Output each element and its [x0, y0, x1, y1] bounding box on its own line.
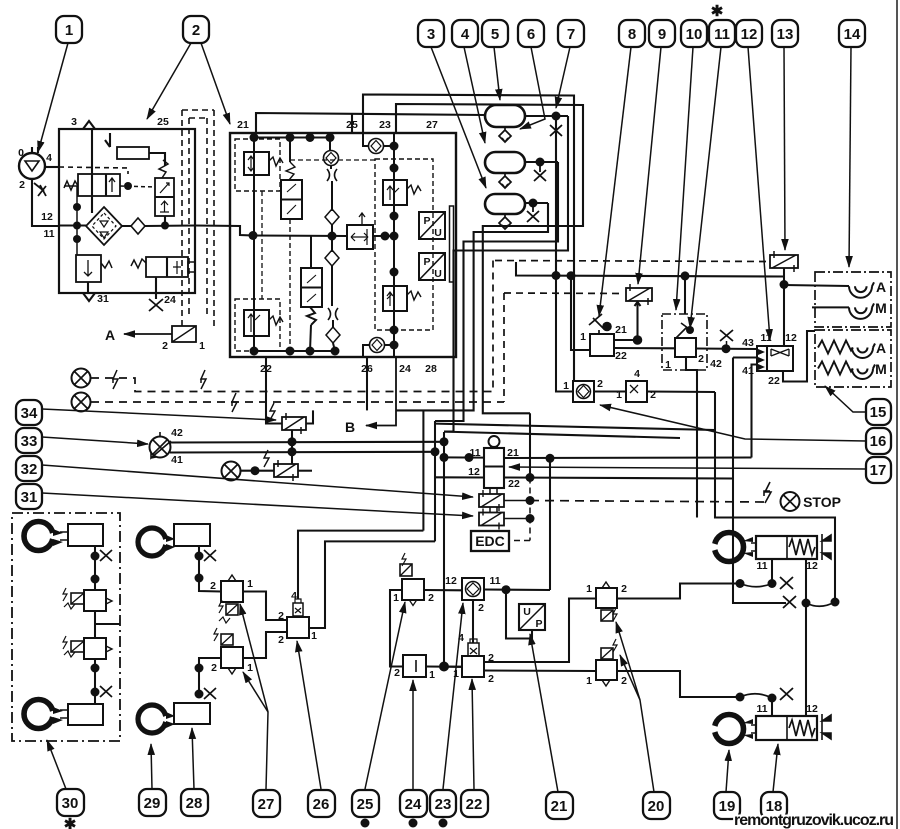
spring valve 23 — [407, 185, 421, 194]
compressor 1 — [19, 153, 45, 179]
brake cylinder 28 — [174, 703, 210, 724]
wire central valve right — [373, 235, 394, 237]
label B — [345, 419, 355, 435]
junction dots rail — [390, 164, 399, 173]
spring valve 21 — [269, 157, 283, 166]
svg-text:12: 12 — [41, 211, 53, 223]
wire to horn A — [784, 285, 849, 286]
leader callout 13 to valve 13 — [784, 47, 785, 250]
warning lamp 31 — [222, 462, 241, 481]
wire accessory rail to check valve 16 — [556, 276, 573, 392]
trunk riser 28a — [422, 410, 424, 530]
svg-text:B: B — [345, 419, 355, 435]
membrane bar — [450, 206, 454, 282]
compressor labels — [18, 147, 55, 240]
ABS valve 30 lower — [84, 638, 106, 659]
svg-text:11: 11 — [756, 560, 767, 572]
callout 21 — [546, 792, 573, 819]
test X chamber bottom — [780, 688, 793, 700]
wire port 27 supply — [396, 104, 583, 413]
wire valve lower down — [94, 659, 96, 704]
wire port 24 check — [363, 345, 394, 357]
svg-text:27: 27 — [258, 796, 275, 813]
svg-text:U: U — [434, 268, 442, 280]
governor valve V1 — [78, 174, 120, 196]
wire tank 2 loop down — [435, 162, 558, 421]
lightning bolt 1 — [113, 370, 118, 389]
svg-text:11: 11 — [714, 26, 730, 43]
label 31 — [97, 293, 109, 305]
svg-text:22: 22 — [768, 375, 780, 387]
junction dot tank 2 — [536, 158, 545, 167]
wire regen lower bottom — [310, 325, 311, 351]
callout 11 — [709, 20, 735, 47]
solenoid 25 — [400, 564, 412, 576]
svg-text:24: 24 — [405, 796, 422, 813]
svg-text:U: U — [523, 606, 531, 618]
wire compressor outlet right — [45, 166, 59, 168]
junction dots lamp lines — [440, 437, 449, 446]
dashed channel cap — [182, 110, 214, 118]
svg-text:1: 1 — [247, 578, 253, 590]
wire valve 34 output — [306, 410, 313, 423]
leader callout 2 to governor box — [147, 43, 191, 119]
protection valve box — [230, 133, 456, 357]
trunk wire 42 right — [435, 424, 715, 430]
callout 3 — [418, 20, 444, 47]
wire 26 pilot up — [298, 531, 423, 599]
callout 14 — [839, 20, 865, 47]
solenoid 30 upper — [71, 593, 84, 604]
port labels bottom — [260, 363, 437, 375]
svg-text:28: 28 — [186, 795, 203, 812]
label 3 — [71, 116, 169, 128]
leader callout 14 to horn box — [849, 47, 851, 267]
wire valve 25 left loop — [390, 590, 403, 667]
svg-text:1: 1 — [665, 359, 671, 371]
regeneration valve upper — [281, 180, 302, 219]
pressure regulator resistor — [117, 147, 149, 159]
callout 25 — [352, 790, 379, 817]
retarder valve upper 32 — [479, 494, 504, 507]
governor box 2 — [59, 129, 195, 293]
bottom bus wire — [254, 350, 335, 352]
junction dot 28b — [195, 690, 204, 699]
wire to A arrow — [124, 333, 172, 335]
lightning bolt 3 — [232, 393, 237, 412]
leader callout 6 to tank 1 drain valve — [520, 47, 545, 129]
wire lamp 31 to valve 32 — [241, 470, 274, 472]
wire tank 3 loop down — [396, 203, 548, 410]
junction dot 29a — [195, 552, 204, 561]
leader callout 1 to compressor — [38, 43, 68, 152]
wire diamond to mid bus — [331, 225, 333, 252]
callout 13 — [772, 20, 798, 47]
callout 5 — [482, 20, 508, 47]
svg-text:2: 2 — [19, 179, 25, 191]
leader callout 9 to valve 9 — [638, 47, 661, 284]
junction dot mid bus — [328, 232, 337, 241]
svg-text:7: 7 — [567, 26, 575, 43]
dashed wire to valve 13 — [495, 261, 768, 262]
left rail wire — [253, 138, 255, 352]
wire hand valve to trailer valve — [696, 347, 757, 350]
callout 7 — [558, 20, 584, 47]
contact tick — [105, 133, 110, 147]
callout 16 — [866, 428, 891, 454]
spring valve 22 — [269, 316, 283, 325]
dot below callout 24 — [409, 819, 418, 828]
junction dot valve 13 — [780, 280, 789, 289]
svg-text:24: 24 — [399, 363, 411, 375]
safety valve — [76, 255, 101, 282]
svg-text:6: 6 — [527, 26, 535, 43]
lightning valve 32 — [264, 450, 269, 467]
P/U sensor lower — [419, 253, 445, 280]
svg-text:22: 22 — [508, 478, 520, 490]
leader callout 3 to tank 3 — [431, 47, 486, 188]
air dryer filter — [86, 207, 122, 245]
svg-text:✱: ✱ — [64, 816, 77, 829]
brake cylinder 29 — [174, 524, 210, 546]
svg-text:2: 2 — [162, 340, 168, 352]
wire V1 top to box top — [91, 129, 93, 174]
callout 29 — [139, 789, 166, 816]
wire lamp 33 line 42 — [170, 441, 444, 444]
leader callout 27 to ABS valve upper — [240, 604, 268, 789]
wire chamber 12 top — [805, 558, 807, 603]
leader callout 4 to tank 2 — [464, 47, 485, 143]
ABS valve 27 upper — [221, 581, 243, 602]
wire valve 27 upper to 26 — [243, 592, 287, 621]
svg-text:31: 31 — [21, 489, 38, 506]
wire valve 25 to 23 — [424, 589, 462, 591]
svg-text:12: 12 — [741, 26, 758, 43]
hand valve 10 — [675, 338, 696, 357]
svg-text:14: 14 — [844, 26, 861, 43]
air tank 1 — [485, 105, 525, 127]
svg-text:32: 32 — [21, 461, 38, 478]
vent triangle on box top — [83, 121, 95, 129]
trunk riser 32 — [434, 421, 436, 541]
wire valve 8 supply — [571, 276, 590, 350]
svg-text:4: 4 — [458, 632, 464, 644]
wire 22 lower out — [484, 669, 596, 672]
watermark remontgruzovik.ucoz.ru — [734, 812, 894, 829]
svg-text:42: 42 — [710, 358, 722, 370]
leader callout 33 to warning lamp 33 — [42, 437, 148, 444]
test point X tank 2 — [534, 162, 546, 181]
svg-text:M: M — [875, 300, 887, 316]
lightning valve 34 — [270, 403, 275, 420]
wire valve 13 down — [783, 268, 785, 346]
P/U sensor upper — [419, 212, 445, 239]
overflow valve 21 — [244, 152, 269, 175]
check diamond bottom — [326, 327, 340, 343]
svg-text:EDC: EDC — [475, 533, 505, 549]
horn box 14 — [815, 272, 891, 327]
svg-text:2: 2 — [698, 353, 704, 365]
check diamond mid upper — [325, 209, 339, 225]
leader callout 20 to valve 20 lower — [620, 655, 640, 700]
svg-text:P: P — [423, 256, 430, 268]
callout 15 — [866, 399, 891, 425]
connector 26 — [293, 603, 303, 616]
junction dot 23 — [502, 585, 511, 594]
dashed box circuits 23-24 — [375, 159, 433, 330]
leader callout 20 to valve 20 upper — [616, 622, 654, 792]
wire valve 23 out — [484, 588, 550, 591]
junction dot port 21 — [546, 454, 555, 463]
throttle lower — [328, 308, 338, 320]
svg-text:M: M — [875, 361, 887, 377]
solenoid 20 upper — [601, 610, 613, 621]
antifreeze pump valve A — [172, 326, 196, 342]
central solenoid valve — [347, 225, 373, 249]
leader callout 19 to wheel 19 — [726, 750, 729, 792]
svg-text:1: 1 — [199, 340, 205, 352]
pressure limiter 22 — [462, 656, 484, 677]
wire valve 24 out — [426, 665, 462, 667]
wire inflation valve down — [155, 277, 157, 299]
air tank 2 — [485, 152, 525, 173]
wire hand valve park line — [686, 357, 697, 518]
svg-text:28: 28 — [425, 363, 437, 375]
wire valve 8 port 21 — [614, 339, 637, 341]
brake valve head — [489, 436, 500, 447]
leader callout 28 to brake cylinder 28 — [192, 728, 194, 789]
callout 20 — [643, 792, 670, 819]
hose arc spring top — [806, 602, 835, 606]
wire port 22 to valve 34 — [266, 357, 282, 424]
STOP dashed wire — [530, 501, 764, 503]
wire cylinder 29 down — [199, 546, 221, 592]
svg-text:2: 2 — [211, 662, 217, 674]
wire trailer valve port 41 — [752, 365, 758, 458]
svg-text:43: 43 — [742, 337, 754, 349]
retarder valve lower 31 — [479, 513, 504, 526]
pressure valve 24 — [403, 655, 426, 677]
svg-text:2: 2 — [210, 580, 216, 592]
test X 28 — [204, 688, 216, 699]
test X 29 — [204, 550, 216, 561]
callout 6 — [518, 20, 544, 47]
wire accessory rail to hand valve — [684, 276, 686, 314]
wire port 21 out — [504, 392, 835, 602]
connector 22 — [468, 643, 479, 656]
wire switch 16b output — [647, 390, 715, 393]
svg-text:10: 10 — [686, 26, 703, 43]
resistor horn box 15 — [815, 330, 891, 387]
wire port 23 check — [363, 133, 394, 146]
spring below regen lower — [307, 307, 316, 325]
label STOP — [803, 494, 841, 510]
solenoid 27 upper — [226, 604, 238, 615]
check valve diamond — [131, 218, 145, 234]
svg-text:2: 2 — [278, 634, 284, 646]
junction dots retarder — [526, 496, 535, 505]
wire valve 27 lower to 26 — [243, 632, 287, 658]
wheel sensor 29 — [138, 528, 166, 556]
callout 1 — [56, 16, 82, 43]
wire check 16 to switch — [594, 390, 626, 392]
dashed link between circuit boxes — [261, 191, 263, 299]
callout 17 — [866, 457, 891, 483]
junction dot main line V2 — [161, 222, 169, 230]
wire mid with stub — [95, 611, 120, 638]
top bus wire — [254, 137, 330, 139]
dashed riser lamp circuit 1 — [492, 261, 494, 392]
callout 9 — [649, 20, 675, 47]
svg-text:5: 5 — [491, 26, 499, 43]
wheel sensor 28 — [138, 705, 166, 733]
wire to check upper — [329, 138, 331, 151]
test X chamber top — [780, 577, 793, 589]
port labels top — [237, 119, 438, 131]
wire port 25 riser — [351, 114, 353, 134]
junction dots bottom bus — [250, 347, 259, 356]
wire main line to protection valve — [195, 226, 253, 236]
wire valve 8 port 22 to hand valve — [614, 347, 675, 349]
svg-text:2: 2 — [621, 583, 627, 595]
svg-text:0: 0 — [18, 147, 24, 159]
junction dot b — [91, 575, 100, 584]
port 26 riser — [366, 357, 368, 410]
overflow valve 23 — [383, 180, 407, 205]
wire trailer valve bottom to box 15 — [783, 331, 815, 382]
svg-text:8: 8 — [628, 26, 636, 43]
wire V1 bottom to filter — [91, 196, 93, 213]
spring left of inflation valve — [131, 259, 146, 268]
wire to UP converter — [506, 590, 532, 639]
throttle upper — [327, 169, 337, 181]
leader callout 16 to check valve 16 — [600, 405, 866, 441]
solenoid 30 lower — [71, 641, 84, 652]
STOP lamp — [781, 492, 800, 511]
svg-text:A: A — [876, 279, 886, 295]
regeneration valve lower — [301, 268, 322, 307]
spring above regen valve — [286, 162, 295, 180]
test point X tank 1 — [550, 116, 562, 136]
wire tank 1 to accessories rail — [555, 116, 557, 276]
callout 4 — [452, 20, 478, 47]
EDC box — [471, 531, 509, 551]
right page border — [896, 0, 898, 829]
label 24 — [164, 294, 176, 306]
svg-text:17: 17 — [870, 462, 887, 479]
svg-text:21: 21 — [551, 798, 568, 815]
svg-text:13: 13 — [777, 26, 794, 43]
svg-text:21: 21 — [237, 119, 249, 131]
wire spring ports trunk — [805, 603, 807, 716]
dashed box circuit 22 — [235, 299, 280, 351]
resistor M — [818, 362, 853, 375]
svg-text:29: 29 — [144, 795, 161, 812]
svg-text:25: 25 — [157, 116, 169, 128]
svg-text:11: 11 — [469, 447, 480, 459]
U/P converter 21 — [519, 604, 545, 630]
tank 3 drain valve — [499, 214, 511, 229]
dashed wire top — [290, 159, 375, 161]
wire 20 lower to chamber — [617, 671, 740, 697]
svg-text:11: 11 — [756, 703, 767, 715]
svg-text:3: 3 — [427, 26, 435, 43]
tank 2 drain valve — [499, 173, 511, 188]
svg-text:11: 11 — [489, 575, 500, 587]
brake valve 17 — [484, 448, 504, 488]
svg-text:2: 2 — [394, 667, 400, 679]
junction dot main line left — [73, 222, 81, 230]
callout 32 — [16, 456, 42, 481]
svg-text:11: 11 — [43, 228, 54, 240]
check valve 23 — [462, 578, 484, 600]
horn A — [849, 282, 874, 298]
leader callout 15 to box 15 — [825, 386, 866, 412]
svg-text:42: 42 — [171, 427, 183, 439]
wire trailer valve port 42 — [733, 356, 757, 358]
lightning bolt 2 — [201, 370, 206, 389]
callout 34 — [16, 400, 42, 425]
junction dot a — [91, 552, 100, 561]
lightning STOP — [764, 482, 771, 503]
solenoid valve 32 — [274, 464, 298, 477]
wire check bottom to bus — [333, 343, 335, 351]
wire throttle to check bottom — [332, 320, 334, 328]
junction dot chamber top a — [736, 579, 745, 588]
junction dot chamber bottom a — [736, 693, 745, 702]
leader callout 23 to valve 23 — [443, 603, 463, 789]
spring brake chamber 18 bottom — [756, 716, 817, 740]
test X a — [100, 550, 112, 561]
callout 23 — [430, 790, 456, 817]
wire port 11 feed — [444, 456, 484, 458]
callout 24 — [400, 790, 427, 817]
wire safety valve to vent — [87, 282, 89, 293]
junction dot 24 — [439, 662, 449, 672]
svg-text:27: 27 — [426, 119, 438, 131]
svg-text:3: 3 — [71, 116, 77, 128]
svg-text:2: 2 — [597, 378, 603, 390]
svg-text:2: 2 — [428, 592, 434, 604]
svg-text:1: 1 — [586, 583, 592, 595]
overflow valve 24 — [383, 286, 407, 311]
hose arc top — [740, 584, 772, 587]
junction dot d — [91, 688, 100, 697]
junction dot c — [91, 664, 100, 673]
wire check to diamond — [331, 165, 332, 211]
valve stems — [490, 488, 497, 513]
callout 12 — [736, 20, 762, 47]
leader callout 17 to brake valve — [509, 467, 866, 469]
leader callout 11 to hand valve lever — [690, 47, 721, 328]
unloader valve V2 — [155, 178, 174, 216]
test point X below compressor — [34, 183, 46, 196]
svg-text:1: 1 — [586, 675, 592, 687]
leader callout 26 to valve 26 — [297, 641, 321, 789]
junction dot chamber bottom b — [768, 694, 777, 703]
warning lamp 33 — [150, 437, 171, 458]
leader callout 31 to retarder valve lower — [42, 493, 473, 516]
wire port 12 feed — [435, 476, 484, 478]
wire tank 3 right — [525, 202, 548, 204]
leader callout 12 to trailer control valve — [748, 47, 770, 340]
junction dots central out — [381, 232, 390, 241]
wire tank 1 right — [525, 115, 568, 117]
wire 20 upper to chamber — [617, 584, 740, 599]
svg-text:26: 26 — [313, 796, 330, 813]
svg-text:1: 1 — [247, 662, 253, 674]
wire valve 27 lower left — [199, 658, 221, 695]
